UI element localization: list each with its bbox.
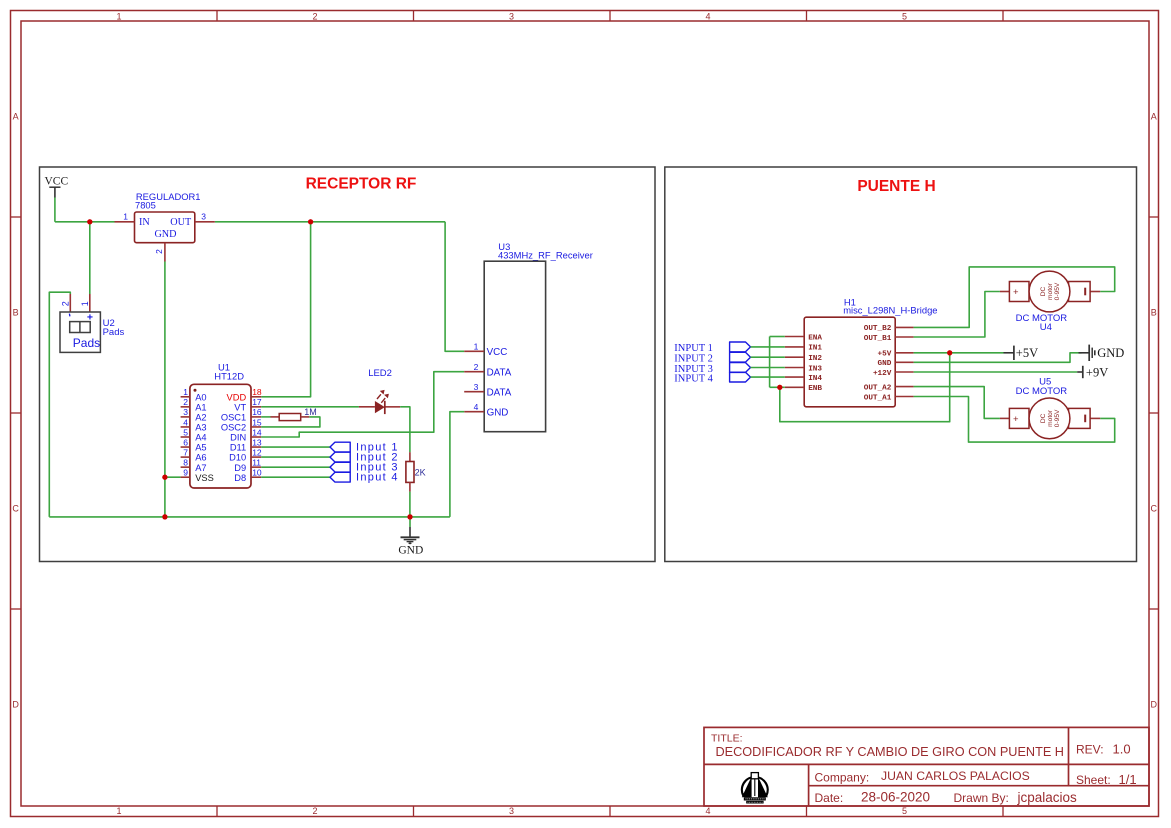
svg-text:DC MOTOR: DC MOTOR xyxy=(1016,386,1068,397)
svg-text:VT: VT xyxy=(234,402,246,412)
svg-text:TITLE:: TITLE: xyxy=(711,733,743,745)
svg-text:2: 2 xyxy=(154,249,164,254)
svg-text:ENA: ENA xyxy=(808,334,822,342)
svg-text:3: 3 xyxy=(183,407,188,417)
svg-text:RECEPTOR RF: RECEPTOR RF xyxy=(306,176,417,193)
svg-text:1: 1 xyxy=(123,211,128,221)
svg-text:U4: U4 xyxy=(1040,322,1052,333)
svg-text:HT12D: HT12D xyxy=(214,370,244,381)
svg-text:IN: IN xyxy=(139,217,150,228)
svg-text:A1: A1 xyxy=(195,402,206,412)
svg-text:VCC: VCC xyxy=(487,347,508,358)
svg-text:ENB: ENB xyxy=(808,385,822,393)
svg-text:DECODIFICADOR RF Y CAMBIO DE G: DECODIFICADOR RF Y CAMBIO DE GIRO CON PU… xyxy=(716,745,1064,759)
svg-text:C: C xyxy=(12,504,19,514)
svg-text:3: 3 xyxy=(201,211,206,221)
svg-text:OSC2: OSC2 xyxy=(221,423,246,433)
svg-text:GND: GND xyxy=(154,229,176,240)
svg-text:9: 9 xyxy=(183,468,188,478)
svg-text:+5V: +5V xyxy=(878,351,892,359)
svg-text:14: 14 xyxy=(252,427,262,437)
svg-text:Date:: Date: xyxy=(815,791,844,805)
svg-text:1: 1 xyxy=(474,341,479,351)
svg-text:OUT_A1: OUT_A1 xyxy=(864,394,892,402)
svg-text:A: A xyxy=(1151,112,1157,122)
svg-text:OUT: OUT xyxy=(170,217,192,228)
svg-text:+: + xyxy=(1013,287,1019,298)
svg-text:Input 4: Input 4 xyxy=(356,471,399,483)
svg-text:11: 11 xyxy=(252,457,261,467)
svg-text:1: 1 xyxy=(183,387,188,397)
svg-text:0-95V: 0-95V xyxy=(1054,409,1061,427)
svg-text:B: B xyxy=(13,308,19,318)
svg-text:7805: 7805 xyxy=(135,200,156,211)
svg-text:PUENTE H: PUENTE H xyxy=(857,178,935,195)
svg-text:VDD: VDD xyxy=(227,392,247,402)
svg-text:A2: A2 xyxy=(195,413,206,423)
svg-text:A5: A5 xyxy=(195,443,206,453)
svg-text:15: 15 xyxy=(252,417,262,427)
svg-text:REV:: REV: xyxy=(1076,743,1104,757)
svg-text:D10: D10 xyxy=(229,453,246,463)
svg-text:16: 16 xyxy=(252,407,262,417)
svg-text:17: 17 xyxy=(252,397,262,407)
svg-text:IN1: IN1 xyxy=(808,345,822,353)
svg-text:misc_L298N_H-Bridge: misc_L298N_H-Bridge xyxy=(843,304,937,315)
svg-text:DC: DC xyxy=(1040,287,1047,297)
svg-text:INPUT 4: INPUT 4 xyxy=(674,373,713,384)
svg-text:13: 13 xyxy=(252,437,262,447)
svg-text:2: 2 xyxy=(312,806,317,816)
svg-text:4: 4 xyxy=(705,806,710,816)
svg-text:DC: DC xyxy=(1040,413,1047,423)
svg-text:Sheet:: Sheet: xyxy=(1076,773,1111,787)
svg-text:433MHz_RF_Receiver: 433MHz_RF_Receiver xyxy=(498,249,593,260)
svg-text:GND: GND xyxy=(878,360,892,368)
svg-text:Pads: Pads xyxy=(73,336,100,350)
svg-text:1.0: 1.0 xyxy=(1113,742,1131,757)
svg-text:4: 4 xyxy=(474,402,479,412)
svg-text:4: 4 xyxy=(705,11,710,21)
svg-text:D: D xyxy=(1150,700,1157,710)
svg-text:OSC1: OSC1 xyxy=(221,413,246,423)
svg-text:3: 3 xyxy=(509,11,514,21)
svg-text:+12V: +12V xyxy=(873,370,892,378)
svg-text:D9: D9 xyxy=(234,463,246,473)
svg-text:JUAN CARLOS PALACIOS: JUAN CARLOS PALACIOS xyxy=(881,769,1030,783)
svg-text:C: C xyxy=(1150,504,1157,514)
svg-text:+: + xyxy=(87,312,93,324)
svg-text:motor: motor xyxy=(1047,282,1054,300)
svg-text:B: B xyxy=(1151,308,1157,318)
svg-text:IN4: IN4 xyxy=(808,375,822,383)
svg-text:2: 2 xyxy=(183,397,188,407)
svg-text:1/1: 1/1 xyxy=(1119,772,1137,787)
svg-text:3: 3 xyxy=(509,806,514,816)
svg-text:28-06-2020: 28-06-2020 xyxy=(861,789,930,804)
svg-text:D11: D11 xyxy=(230,443,246,453)
svg-text:D: D xyxy=(12,700,19,710)
svg-text:jcpalacios: jcpalacios xyxy=(1017,790,1078,805)
svg-text:A3: A3 xyxy=(195,423,206,433)
svg-text:motor: motor xyxy=(1047,409,1054,427)
svg-text:A4: A4 xyxy=(195,433,206,443)
svg-text:+: + xyxy=(1013,414,1019,425)
svg-text:8: 8 xyxy=(183,457,188,467)
svg-text:IN2: IN2 xyxy=(808,355,822,363)
svg-text:18: 18 xyxy=(252,387,262,397)
svg-text:10: 10 xyxy=(252,468,262,478)
svg-text:12: 12 xyxy=(252,447,262,457)
svg-text:4: 4 xyxy=(183,417,188,427)
svg-text:LED2: LED2 xyxy=(368,368,392,379)
svg-text:D8: D8 xyxy=(234,473,246,483)
svg-text:+9V: +9V xyxy=(1086,365,1108,379)
svg-text:Drawn By:: Drawn By: xyxy=(954,791,1009,805)
svg-text:A6: A6 xyxy=(195,453,206,463)
svg-text:GND: GND xyxy=(398,545,423,557)
svg-text:GND: GND xyxy=(487,408,509,419)
svg-text:5: 5 xyxy=(902,806,907,816)
svg-text:Company:: Company: xyxy=(815,771,870,785)
svg-text:1M: 1M xyxy=(304,407,317,417)
svg-text:7: 7 xyxy=(183,447,188,457)
svg-text:1: 1 xyxy=(80,301,90,306)
svg-text:1: 1 xyxy=(116,806,121,816)
svg-text:OUT_B2: OUT_B2 xyxy=(864,325,892,333)
svg-text:OUT_A2: OUT_A2 xyxy=(864,384,892,392)
svg-text:3: 3 xyxy=(474,382,479,392)
svg-text:+5V: +5V xyxy=(1016,346,1038,360)
svg-text:GND: GND xyxy=(1097,346,1124,360)
svg-text:2: 2 xyxy=(312,11,317,21)
svg-text:A7: A7 xyxy=(195,463,206,473)
svg-text:1: 1 xyxy=(116,11,121,21)
svg-text:VCC: VCC xyxy=(45,176,69,188)
svg-text:5: 5 xyxy=(902,11,907,21)
svg-text:DATA: DATA xyxy=(487,388,512,399)
svg-text:VSS: VSS xyxy=(195,473,214,483)
svg-text:A: A xyxy=(13,112,19,122)
svg-text:5: 5 xyxy=(183,427,188,437)
svg-text:DIN: DIN xyxy=(230,433,246,443)
svg-text:2: 2 xyxy=(474,362,479,372)
svg-text:0-95V: 0-95V xyxy=(1054,282,1061,300)
svg-text:2K: 2K xyxy=(415,467,426,477)
svg-text:6: 6 xyxy=(183,437,188,447)
svg-text:DATA: DATA xyxy=(487,368,512,379)
svg-text:OUT_B1: OUT_B1 xyxy=(864,335,892,343)
svg-text:IN3: IN3 xyxy=(808,365,822,373)
svg-text:A0: A0 xyxy=(195,392,206,402)
svg-text:Pads: Pads xyxy=(103,327,125,338)
svg-text:2: 2 xyxy=(60,301,70,306)
